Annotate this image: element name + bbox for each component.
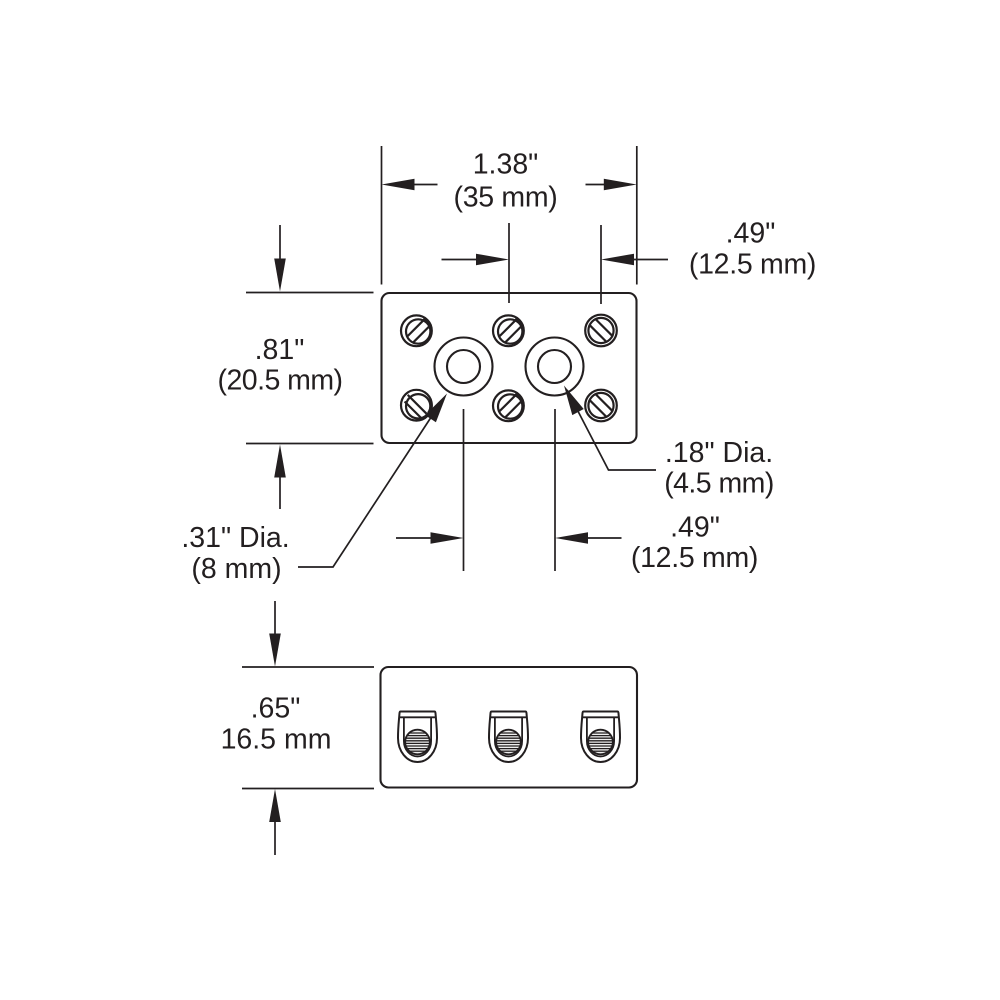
svg-text:(35 mm): (35 mm) [454,182,558,214]
svg-text:(4.5 mm): (4.5 mm) [664,468,774,500]
dimension .65in extension line bottom [242,788,374,790]
svg-text:.81": .81" [255,334,305,366]
screws top view [401,315,617,422]
side view terminals [398,712,620,763]
svg-text:16.5 mm: 16.5 mm [221,724,332,756]
dimension .65in extension line top [242,666,374,668]
dimension .65in arrow up [274,818,276,855]
dimension .49in lower extension line right (hole center) [554,409,556,571]
svg-text:.49": .49" [726,218,776,250]
hole left inner [447,350,480,383]
terminal left [398,712,437,763]
leader line for .18in dia [567,390,656,470]
dimension .49in lower extension line left (hole center) [463,409,465,571]
svg-text:.49": .49" [670,512,720,544]
hole left .31in outer [435,338,493,396]
dimension .49in top arrow pointing left [630,259,668,261]
dimension .81in extension line bottom [246,443,374,445]
terminal middle [489,712,528,763]
dimension .49in top extension line right [600,225,602,304]
terminal right [581,712,620,763]
screw bottom-middle [493,390,524,421]
dimension .49in lower arrow pointing right [396,537,434,539]
dimension .49in top extension line mid [508,223,510,303]
dimension 1.38in extension line left [381,146,383,285]
svg-text:1.38": 1.38" [473,149,539,181]
svg-text:.65": .65" [251,693,301,725]
dimension 1.38in arrow right [586,184,609,186]
dimension 1.38in arrow left [410,184,438,186]
dimension .81in extension line top [246,292,374,294]
svg-text:(12.5 mm): (12.5 mm) [631,542,758,574]
screw bottom-right [585,390,617,422]
leader line for .31in dia [298,399,443,567]
terminal block side view body [381,667,638,788]
dimension 1.38in extension line right [636,146,638,285]
screw top-right [585,315,617,347]
svg-text:(12.5 mm): (12.5 mm) [689,249,816,281]
hole right .18in inner [538,350,571,383]
terminal block top view body [382,293,637,443]
screw top-left [401,315,432,346]
dimension .81in arrow down [279,225,281,262]
hole right outer [526,338,584,396]
svg-text:.31" Dia.: .31" Dia. [181,522,289,554]
dimension .81in arrow up [279,474,281,509]
svg-text:.18" Dia.: .18" Dia. [665,437,773,469]
dimension .49in top arrow pointing right [442,259,481,261]
dimension .65in arrow down [274,601,276,637]
screw bottom-left [401,390,432,421]
svg-text:(20.5 mm): (20.5 mm) [218,365,343,397]
screw top-middle [493,315,524,346]
dimension .49in lower arrow pointing left [584,537,622,539]
svg-text:(8 mm): (8 mm) [191,553,281,585]
